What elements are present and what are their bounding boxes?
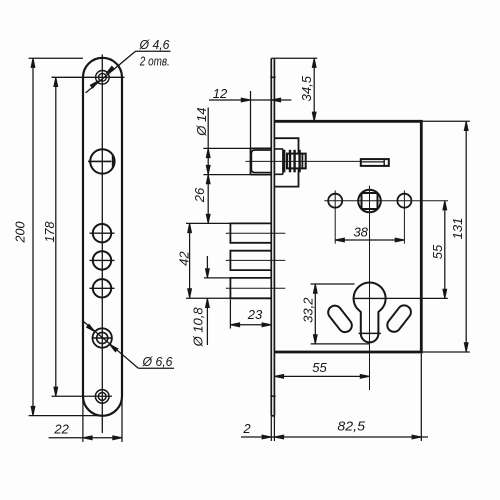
- dim 42 arrow top: [188, 223, 192, 232]
- spring coil 3: [293, 150, 295, 173]
- svg-text:200: 200: [14, 222, 28, 244]
- dim 42 line: [189, 223, 191, 298]
- follower inner hub (rounded): [251, 150, 271, 172]
- svg-text:131: 131: [450, 218, 465, 240]
- dim 34.5 arrow bottom: [312, 112, 316, 121]
- side view screw hole tick top: [270, 76, 275, 78]
- euro cylinder circle tick: [353, 297, 386, 299]
- dim 42 arrow bottom: [188, 289, 192, 298]
- phi6.6 arrow upper: [87, 324, 96, 333]
- dim 55 right arrow top: [443, 201, 447, 210]
- dim phi10.8 arrow top: [206, 269, 210, 278]
- dim 2 arrow left: [262, 435, 271, 439]
- follower cylinder top edge: [251, 147, 272, 149]
- dim 22 line: [49, 437, 122, 439]
- faceplate side line left: [270, 58, 272, 416]
- screw hole bottom inner: [98, 393, 106, 401]
- dim 200 ext bottom: [29, 415, 102, 417]
- bolt hole 3 centerline: [90, 287, 115, 289]
- dim 131 ext bottom: [421, 351, 470, 353]
- dim 131 line: [465, 121, 467, 352]
- phi4.6 arrow upper: [105, 66, 114, 75]
- ext pin3 bottom: [186, 297, 230, 299]
- bolt hole 3: [93, 279, 111, 297]
- svg-text:55: 55: [312, 360, 327, 375]
- follower square hole: [362, 193, 378, 209]
- dim 55 right arrow bottom: [443, 289, 447, 298]
- dim 22 ext left: [82, 398, 84, 442]
- dim 34.5 ext top: [271, 57, 317, 59]
- dim 200 arrow bottom: [31, 406, 35, 415]
- spring coil 4: [298, 150, 300, 173]
- follower housing box: [275, 138, 299, 186]
- phi14 ext bottom: [203, 174, 250, 176]
- dim 12 arrow right: [271, 98, 280, 102]
- follower vertical centerline: [369, 186, 371, 390]
- svg-text:Ø 10,8: Ø 10,8: [191, 307, 206, 348]
- svg-text:82,5: 82,5: [337, 418, 365, 433]
- dim phi10.8 line lower: [206, 298, 208, 345]
- spring coil 2: [289, 150, 291, 173]
- svg-text:2: 2: [242, 421, 251, 436]
- svg-text:2 отв.: 2 отв.: [139, 54, 170, 69]
- bolt hole 2: [93, 251, 111, 269]
- spring coil 1: [283, 150, 285, 173]
- faceplate bottom cap: [271, 415, 274, 417]
- svg-text:23: 23: [247, 307, 263, 322]
- dim 55R ext bottom: [386, 297, 448, 299]
- dim 55 bottom arrow left: [274, 375, 283, 379]
- handle hole (front): [90, 149, 114, 173]
- svg-text:Ø 4,6: Ø 4,6: [139, 37, 171, 52]
- euro cylinder lobe tick: [359, 332, 381, 334]
- spindle axis horizontal line: [324, 200, 448, 202]
- dim 200 arrow top: [31, 58, 35, 67]
- dim 2 ext (plate lines down): [270, 416, 272, 441]
- faceplate outline: [83, 58, 122, 416]
- dim 55B line: [274, 375, 369, 377]
- leader phi 4.6 shelf: [136, 50, 171, 52]
- ext pin1 top: [186, 222, 230, 224]
- screw hole top (phi 4.6) outer: [96, 71, 110, 85]
- dim 12 arrow left: [241, 98, 250, 102]
- dim 23 line: [230, 324, 271, 326]
- phi14 ext top: [203, 147, 250, 149]
- dim 82.5 line: [241, 436, 428, 438]
- dim 178 arrow bottom: [54, 387, 58, 396]
- lock body outline: [275, 121, 422, 352]
- bolt hole 1: [93, 224, 111, 242]
- left slot: [325, 303, 354, 335]
- fixing hole left circle: [328, 194, 342, 208]
- dim 33.2 line: [314, 284, 316, 344]
- spindle bar: [361, 159, 389, 166]
- dim 34.5 line: [313, 58, 315, 121]
- nut inner edge: [301, 154, 303, 169]
- bolt pin 3 axis: [226, 287, 285, 289]
- svg-text:26: 26: [192, 187, 207, 203]
- bolt pin 1 body: [230, 223, 271, 242]
- ext pin3 top: [204, 277, 230, 279]
- dim 178 ext top: [52, 76, 125, 78]
- dim 26 arrow bottom: [206, 214, 210, 223]
- dim 178 line: [55, 77, 57, 396]
- leader phi 6.6 shelf: [138, 367, 174, 369]
- leader phi 4.6 diagonal: [86, 51, 136, 93]
- dim 22 arrow left: [83, 436, 92, 440]
- svg-text:178: 178: [43, 222, 57, 243]
- dim phi14/26 line: [207, 108, 209, 224]
- dim 33.2 ext bottom: [311, 343, 370, 345]
- dim 33.2 arrow top: [313, 284, 317, 293]
- fixing hole right circle: [397, 194, 411, 208]
- svg-text:38: 38: [353, 224, 368, 239]
- svg-text:55: 55: [430, 244, 445, 259]
- dim 55R line: [444, 201, 446, 299]
- follower cylinder end face: [250, 148, 252, 174]
- dim 82.5 arrow left: [274, 435, 283, 439]
- plate vertical centerline: [101, 55, 103, 434]
- phi6.6 arrow lower: [108, 343, 117, 352]
- dim 22 ext right: [121, 398, 123, 442]
- dim 22 arrow right: [113, 436, 122, 440]
- spindle bar divider: [383, 159, 385, 166]
- svg-text:34,5: 34,5: [299, 75, 314, 101]
- dim phi10.8 line upper: [206, 256, 208, 278]
- screw hole bottom outer: [95, 390, 109, 404]
- dim 200 line: [32, 58, 34, 415]
- svg-text:12: 12: [213, 86, 228, 101]
- dim 178 arrow top: [54, 77, 58, 86]
- euro cylinder profile: [354, 282, 386, 342]
- dim phi10.8 arrow bottom: [206, 298, 210, 307]
- dim 38 line: [335, 239, 404, 241]
- bolt pin 2 body: [230, 251, 271, 270]
- follower axis centerline: [246, 160, 361, 162]
- handle hole horizontal centerline: [88, 160, 111, 162]
- dim 33.2 ext top: [311, 283, 355, 285]
- key hole (phi 6.6) outer: [93, 328, 112, 347]
- side view screw hole tick bottom: [270, 395, 275, 397]
- dim 82.5 ext right: [420, 354, 422, 442]
- key hole horizontal centerline: [92, 337, 112, 339]
- right slot: [385, 303, 414, 335]
- dim phi14 arrow bottom: [206, 165, 210, 174]
- svg-text:Ø 6,6: Ø 6,6: [142, 354, 174, 369]
- dim 131 arrow bottom: [464, 343, 468, 352]
- dim 26 arrow top: [206, 175, 210, 184]
- screw hole top inner: [99, 73, 107, 81]
- handle hole flat (dark crescent): [112, 154, 115, 170]
- svg-text:33,2: 33,2: [301, 297, 316, 323]
- dim 55 bottom arrow right: [360, 375, 369, 379]
- phi4.6 arrow lower: [90, 79, 99, 88]
- dim phi14 arrow top: [206, 148, 210, 157]
- bolt pin 2 axis: [226, 259, 285, 261]
- nut on follower: [287, 154, 306, 169]
- dim 23 arrow left: [230, 323, 239, 327]
- svg-text:Ø 14: Ø 14: [194, 108, 209, 137]
- dim 38 arrow left: [335, 238, 344, 242]
- bolt pin 3 body: [230, 278, 271, 298]
- dim 82.5 arrow right: [412, 435, 421, 439]
- left circle vertical line: [334, 190, 336, 243]
- bolt hole 1 centerline: [90, 232, 115, 234]
- spindle bar mid line: [361, 161, 384, 163]
- follower cylinder bottom edge: [251, 174, 272, 176]
- leader phi 6.6 diagonal: [83, 321, 138, 368]
- dim 23 ext: [229, 300, 231, 329]
- dim 131 arrow top: [464, 121, 468, 130]
- dim 34.5 arrow top: [312, 58, 316, 67]
- dim 33.2 arrow bottom: [313, 335, 317, 344]
- svg-text:22: 22: [53, 422, 69, 437]
- dim 178 ext bottom: [52, 395, 113, 397]
- svg-text:42: 42: [177, 251, 192, 266]
- dim 12 line: [209, 99, 291, 101]
- dim 12 ext: [250, 91, 252, 148]
- dim 23 arrow right: [262, 323, 271, 327]
- follower collar: [275, 149, 283, 174]
- faceplate side line right: [273, 58, 275, 416]
- dim 38 arrow right: [395, 238, 404, 242]
- dim 131 ext top: [421, 120, 470, 122]
- bolt pin 1 axis: [226, 232, 285, 234]
- follower axis across nut: [287, 160, 306, 162]
- follower circle: [358, 190, 381, 213]
- bolt hole 2 centerline: [90, 259, 115, 261]
- right circle vertical line: [403, 190, 405, 243]
- dim 200 ext top: [29, 57, 83, 59]
- key hole inner: [97, 332, 108, 343]
